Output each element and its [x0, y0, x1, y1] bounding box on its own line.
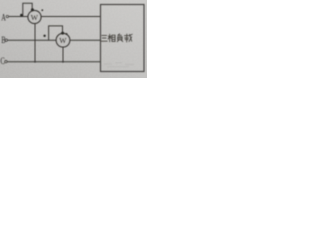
W1 polarity mark [41, 9, 43, 11]
W1 voltage-coil loop [23, 3, 32, 16]
svg-text:A: A [1, 13, 6, 23]
ghost show-through marks inside load box [104, 63, 134, 68]
paper grain [0, 0, 147, 78]
glyph 载 [124, 34, 132, 42]
svg-text:W: W [59, 36, 67, 45]
glyph 负 [117, 34, 123, 42]
svg-text:C: C [0, 56, 4, 66]
W2 dot at circle top [61, 32, 64, 35]
W2 voltage-coil loop [49, 26, 63, 40]
wire line A right segment to load [41, 16, 101, 18]
wire line C [7, 61, 100, 63]
glyph 相 [108, 34, 115, 42]
load label 三相负载 (hand-drawn glyphs) [101, 34, 132, 42]
three-phase load box [101, 5, 145, 72]
W2 wire down to line C [62, 47, 64, 62]
svg-text:W: W [31, 13, 39, 22]
background paper [0, 0, 147, 78]
wire line B left segment [8, 39, 57, 41]
W2 polarity mark near line B [43, 35, 45, 37]
W2 junction dot on line C [62, 61, 64, 63]
W1 wire down to line C [34, 24, 36, 62]
wire line A left segment [9, 16, 28, 18]
wattmeter W1 [28, 10, 41, 23]
W2 polarity mark right [66, 33, 68, 35]
terminal B [5, 39, 7, 41]
wattmeter W2 [56, 33, 70, 47]
W1 junction dot on line C [34, 61, 36, 63]
glyph 三 [101, 35, 107, 41]
terminal A [6, 15, 8, 17]
terminal C [5, 60, 7, 62]
W1 dot at circle top [31, 8, 34, 11]
W1 junction dot on line A [20, 14, 23, 17]
wire line B right segment to load [70, 39, 101, 41]
